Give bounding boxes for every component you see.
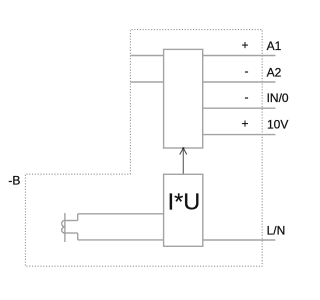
svg-text:A1: A1 (267, 39, 282, 53)
svg-text:+: + (241, 38, 248, 52)
svg-text:10V: 10V (267, 118, 288, 132)
svg-text:L/N: L/N (267, 224, 286, 238)
svg-text:A2: A2 (267, 65, 282, 79)
svg-text:IN/0: IN/0 (267, 91, 289, 105)
svg-text:+: + (241, 116, 248, 130)
svg-text:-B: -B (8, 174, 20, 188)
svg-text:-: - (245, 64, 249, 78)
svg-text:-: - (245, 90, 249, 104)
svg-text:I*U: I*U (168, 188, 201, 214)
